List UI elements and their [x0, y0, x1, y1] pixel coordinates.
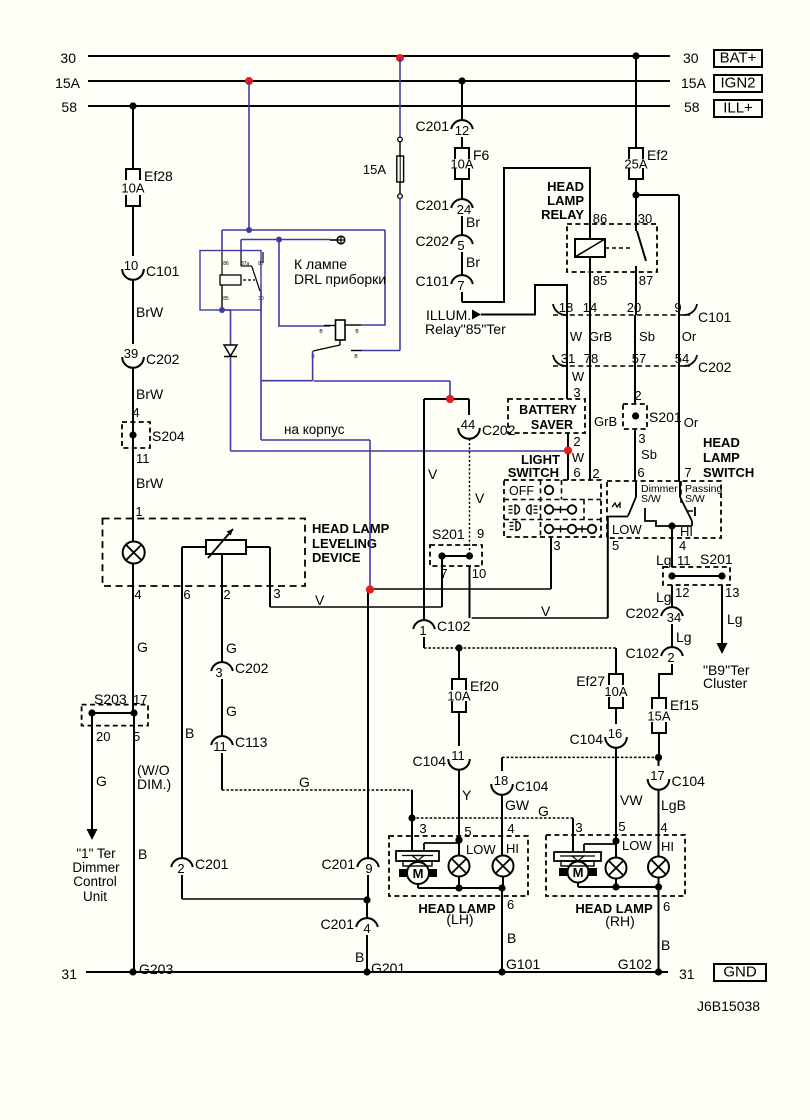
svg-text:DRL приборки: DRL приборки [294, 271, 386, 287]
svg-text:G: G [96, 773, 107, 789]
svg-text:LOW: LOW [622, 838, 652, 853]
svg-text:(LH): (LH) [446, 911, 473, 927]
svg-text:54: 54 [675, 351, 689, 366]
svg-text:Lg: Lg [656, 552, 672, 568]
svg-text:10: 10 [472, 566, 486, 581]
svg-text:6: 6 [637, 465, 644, 480]
svg-text:S204: S204 [152, 428, 185, 444]
svg-text:Lg: Lg [656, 589, 672, 605]
svg-text:SWITCH: SWITCH [703, 465, 754, 480]
svg-text:86: 86 [223, 261, 229, 267]
svg-text:LAMP: LAMP [703, 450, 740, 465]
svg-text:2: 2 [667, 650, 674, 665]
svg-text:К лампе: К лампе [294, 256, 347, 272]
svg-text:15A: 15A [647, 709, 670, 724]
svg-text:4: 4 [660, 820, 667, 835]
svg-text:Br: Br [466, 214, 480, 230]
svg-text:BAT+: BAT+ [720, 50, 757, 67]
svg-text:LAMP: LAMP [547, 193, 584, 208]
svg-text:34: 34 [667, 610, 681, 625]
svg-text:Lg: Lg [727, 611, 743, 627]
svg-text:31: 31 [679, 966, 695, 982]
svg-text:OFF: OFF [509, 484, 534, 498]
svg-text:Y: Y [462, 787, 472, 803]
svg-text:S/W: S/W [641, 493, 661, 505]
svg-text:C104: C104 [413, 753, 447, 769]
svg-text:G: G [226, 640, 237, 656]
svg-text:C202: C202 [416, 233, 450, 249]
svg-text:C202: C202 [482, 422, 516, 438]
svg-text:S201: S201 [700, 551, 733, 567]
svg-text:18: 18 [559, 300, 573, 315]
svg-text:RELAY: RELAY [541, 207, 584, 222]
svg-text:5: 5 [457, 238, 464, 253]
svg-text:15A: 15A [55, 75, 81, 91]
svg-text:9: 9 [365, 861, 372, 876]
svg-text:30: 30 [60, 50, 76, 66]
svg-text:C202: C202 [698, 359, 732, 375]
svg-text:12: 12 [675, 585, 689, 600]
svg-text:14: 14 [583, 300, 597, 315]
svg-text:BrW: BrW [136, 304, 164, 320]
svg-text:C202: C202 [235, 660, 269, 676]
svg-text:C104: C104 [570, 731, 604, 747]
svg-text:GrB: GrB [594, 414, 617, 429]
svg-text:V: V [475, 490, 485, 506]
svg-text:C201: C201 [195, 856, 229, 872]
svg-text:10A: 10A [447, 689, 470, 704]
svg-text:2: 2 [223, 587, 230, 602]
svg-text:Ef2: Ef2 [647, 147, 668, 163]
svg-text:5: 5 [464, 824, 471, 839]
svg-text:Lg: Lg [676, 629, 692, 645]
svg-text:V: V [541, 603, 551, 619]
svg-text:Or: Or [684, 415, 699, 430]
svg-text:LOW: LOW [612, 522, 642, 537]
svg-text:LOW: LOW [466, 842, 496, 857]
svg-text:4: 4 [363, 921, 370, 936]
svg-text:6: 6 [183, 587, 190, 602]
svg-text:10A: 10A [450, 157, 473, 172]
svg-text:S201: S201 [432, 526, 465, 542]
svg-text:Ef27: Ef27 [576, 673, 605, 689]
svg-text:W: W [570, 329, 583, 344]
svg-text:10: 10 [124, 258, 138, 273]
svg-text:J6B15038: J6B15038 [697, 998, 760, 1014]
svg-text:4: 4 [132, 405, 139, 420]
svg-text:44: 44 [461, 417, 475, 432]
svg-text:7: 7 [457, 278, 464, 293]
svg-text:B: B [661, 937, 670, 953]
svg-text:87: 87 [258, 261, 264, 267]
svg-text:(RH): (RH) [605, 913, 635, 929]
svg-text:HEAD LAMP: HEAD LAMP [312, 521, 390, 536]
svg-text:31: 31 [61, 966, 77, 982]
svg-text:39: 39 [124, 346, 138, 361]
svg-text:20: 20 [96, 729, 110, 744]
svg-text:30: 30 [638, 211, 652, 226]
svg-text:B: B [185, 725, 194, 741]
svg-text:13: 13 [725, 585, 739, 600]
svg-text:20: 20 [627, 300, 641, 315]
svg-text:G: G [299, 774, 310, 790]
svg-text:2: 2 [573, 434, 580, 449]
svg-text:5: 5 [618, 819, 625, 834]
svg-text:G101: G101 [506, 956, 540, 972]
svg-text:Br: Br [466, 254, 480, 270]
svg-text:S201: S201 [649, 409, 682, 425]
svg-text:LgB: LgB [661, 797, 686, 813]
svg-text:S/W: S/W [685, 493, 705, 505]
svg-text:G203: G203 [139, 961, 173, 977]
svg-text:HEAD: HEAD [547, 179, 584, 194]
svg-text:LEVELING: LEVELING [312, 536, 377, 551]
svg-text:18: 18 [494, 773, 508, 788]
svg-text:86: 86 [593, 211, 607, 226]
svg-text:B: B [355, 949, 364, 965]
svg-text:C102: C102 [626, 645, 660, 661]
svg-text:85: 85 [593, 273, 607, 288]
svg-text:25A: 25A [624, 157, 647, 172]
svg-text:IGN2: IGN2 [720, 75, 755, 92]
svg-text:9: 9 [477, 526, 484, 541]
svg-text:G: G [538, 803, 549, 819]
svg-text:10A: 10A [121, 181, 144, 196]
svg-text:Or: Or [682, 329, 697, 344]
svg-text:C202: C202 [626, 605, 660, 621]
svg-text:B: B [507, 930, 516, 946]
svg-text:B: B [138, 846, 147, 862]
svg-text:V: V [428, 466, 438, 482]
svg-text:3: 3 [573, 385, 580, 400]
svg-text:15A: 15A [363, 162, 386, 177]
svg-text:2: 2 [592, 466, 599, 481]
svg-text:Ef20: Ef20 [470, 678, 499, 694]
svg-text:SWITCH: SWITCH [508, 465, 559, 480]
svg-text:BrW: BrW [136, 475, 164, 491]
svg-text:C202: C202 [146, 351, 180, 367]
svg-text:HI: HI [506, 841, 519, 856]
svg-text:G102: G102 [618, 956, 652, 972]
svg-text:GW: GW [505, 797, 530, 813]
svg-text:3: 3 [553, 538, 560, 553]
svg-text:2: 2 [177, 861, 184, 876]
svg-text:C102: C102 [437, 618, 471, 634]
svg-text:GND: GND [723, 964, 757, 981]
svg-text:Sb: Sb [639, 329, 655, 344]
svg-text:HEAD: HEAD [703, 435, 740, 450]
svg-text:"1" Ter: "1" Ter [76, 846, 116, 861]
svg-text:7: 7 [684, 465, 691, 480]
svg-text:DIM.): DIM.) [137, 776, 171, 792]
svg-text:SAVER: SAVER [531, 418, 573, 432]
svg-text:11: 11 [213, 739, 227, 754]
svg-text:Sb: Sb [641, 447, 657, 462]
svg-text:16: 16 [608, 726, 622, 741]
svg-text:VW: VW [620, 792, 643, 808]
svg-text:3: 3 [575, 820, 582, 835]
svg-text:ILL+: ILL+ [723, 100, 753, 117]
svg-text:1: 1 [135, 504, 142, 519]
svg-text:17: 17 [650, 768, 664, 783]
svg-text:на корпус: на корпус [284, 422, 345, 437]
svg-text:Unit: Unit [83, 889, 107, 904]
svg-text:W: W [572, 369, 585, 384]
svg-text:C104: C104 [672, 773, 706, 789]
svg-text:4: 4 [507, 821, 514, 836]
svg-text:3: 3 [419, 821, 426, 836]
svg-text:3: 3 [273, 586, 280, 601]
svg-text:85: 85 [223, 296, 229, 302]
svg-text:30: 30 [683, 50, 699, 66]
svg-text:G201: G201 [371, 960, 405, 976]
svg-text:C201: C201 [416, 118, 450, 134]
svg-text:Relay"85"Ter: Relay"85"Ter [425, 321, 506, 337]
svg-text:5: 5 [612, 538, 619, 553]
svg-text:3: 3 [215, 665, 222, 680]
svg-text:3: 3 [638, 431, 645, 446]
svg-text:C201: C201 [416, 197, 450, 213]
svg-text:15A: 15A [681, 75, 707, 91]
svg-text:S203: S203 [94, 691, 127, 707]
svg-text:F6: F6 [473, 147, 490, 163]
svg-text:C101: C101 [698, 309, 732, 325]
svg-text:C201: C201 [321, 916, 355, 932]
svg-text:HI: HI [661, 839, 674, 854]
svg-text:M: M [413, 866, 424, 881]
svg-text:Ef28: Ef28 [144, 168, 173, 184]
svg-text:Dimmer: Dimmer [72, 860, 120, 875]
svg-text:C101: C101 [146, 263, 180, 279]
svg-text:9: 9 [674, 300, 681, 315]
svg-text:BATTERY: BATTERY [519, 403, 577, 417]
svg-text:17: 17 [133, 692, 147, 707]
svg-text:11: 11 [451, 748, 465, 763]
svg-text:12: 12 [455, 123, 469, 138]
svg-text:6: 6 [573, 465, 580, 480]
svg-text:57: 57 [632, 351, 646, 366]
svg-text:58: 58 [684, 99, 700, 115]
svg-text:Cluster: Cluster [703, 675, 748, 691]
svg-text:GrB: GrB [589, 329, 612, 344]
svg-text:4: 4 [134, 587, 141, 602]
svg-text:Ef15: Ef15 [670, 697, 699, 713]
svg-text:11: 11 [136, 451, 150, 466]
svg-text:BrW: BrW [136, 386, 164, 402]
svg-text:M: M [573, 865, 584, 880]
svg-text:C201: C201 [322, 856, 356, 872]
svg-text:11: 11 [677, 553, 691, 568]
svg-text:2: 2 [634, 388, 641, 403]
svg-text:C113: C113 [235, 734, 268, 750]
svg-text:G: G [137, 639, 148, 655]
svg-text:C104: C104 [515, 778, 549, 794]
svg-text:10A: 10A [604, 684, 627, 699]
svg-text:W: W [572, 450, 585, 465]
svg-text:6: 6 [507, 897, 514, 912]
svg-text:4: 4 [679, 538, 686, 553]
svg-text:C101: C101 [416, 273, 450, 289]
svg-text:87: 87 [639, 273, 653, 288]
svg-text:V: V [315, 592, 325, 608]
svg-text:DEVICE: DEVICE [312, 550, 361, 565]
svg-text:1: 1 [419, 623, 426, 638]
svg-text:Control: Control [73, 874, 117, 889]
svg-text:6: 6 [663, 899, 670, 914]
svg-text:87a: 87a [241, 261, 250, 267]
svg-text:58: 58 [61, 99, 77, 115]
svg-text:G: G [226, 703, 237, 719]
